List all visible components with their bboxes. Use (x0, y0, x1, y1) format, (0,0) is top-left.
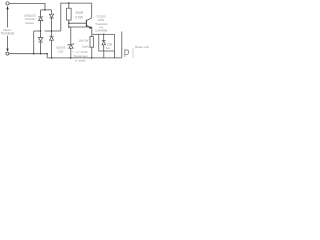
svg-text:10k 1W: 10k 1W (78, 39, 88, 43)
svg-text:0.5W: 0.5W (75, 15, 84, 19)
svg-text:in series: in series (75, 58, 86, 62)
svg-text:Carbon: Carbon (82, 45, 92, 49)
svg-text:Terminals: Terminals (1, 32, 15, 36)
svg-text:C30: C30 (58, 50, 64, 54)
svg-text:bce: bce (106, 46, 111, 50)
svg-text:Brake Unit: Brake Unit (135, 45, 149, 49)
svg-text:Diodes: Diodes (25, 21, 34, 25)
svg-text:G0B: G0B (107, 42, 112, 46)
svg-text:(2N6488): (2N6488) (95, 28, 107, 32)
